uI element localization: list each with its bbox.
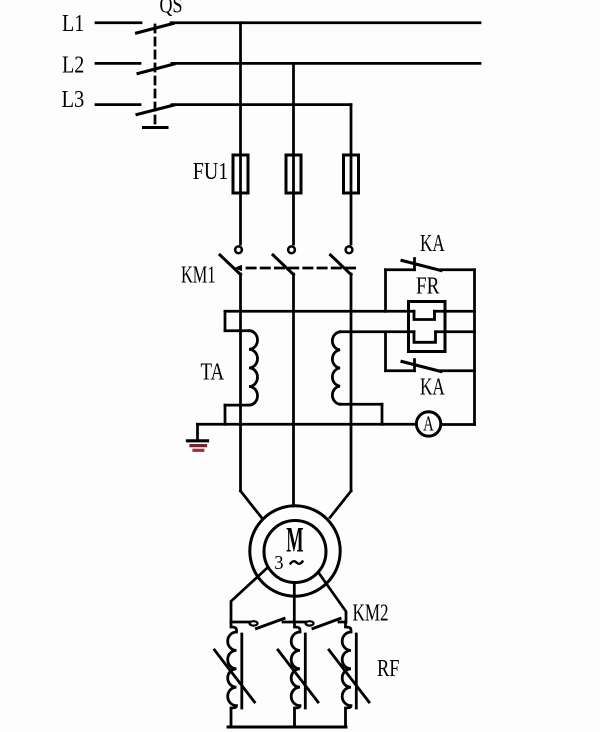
wire RF bottom bus bbox=[228, 726, 346, 729]
wire TA1 coil top lead bbox=[225, 329, 249, 332]
svg-text:KM1: KM1 bbox=[181, 262, 216, 288]
wire rotor lead A bbox=[231, 568, 267, 622]
svg-text:3: 3 bbox=[274, 553, 283, 574]
wire L1 left lead bbox=[96, 21, 141, 24]
contact KA upper left lead bbox=[386, 268, 415, 271]
contactor KM1 pole B blade bbox=[273, 255, 294, 275]
contactor KM1 pole A blade bbox=[220, 255, 241, 275]
contactor KM1 pole B terminal bbox=[288, 246, 295, 253]
wire TA1 secondary top step bbox=[224, 311, 227, 330]
wire L2 left lead bbox=[96, 62, 140, 65]
motor M inner circle bbox=[264, 521, 326, 583]
contact KA lower riser bbox=[413, 360, 416, 371]
svg-text:KA: KA bbox=[420, 231, 445, 257]
contactor KM1 linkage dashed line bbox=[234, 265, 242, 271]
wire motor lead A slant bbox=[241, 491, 262, 518]
fuse FU1 phase C bbox=[344, 155, 359, 193]
contactor KM1 pole C blade bbox=[331, 255, 352, 275]
contactor KM2 contact 2 blade bbox=[313, 619, 340, 629]
contactor KM2 contact 2 terminal bbox=[306, 621, 314, 625]
varistor RF phase B core bar bbox=[304, 634, 307, 708]
svg-text:FR: FR bbox=[416, 273, 440, 299]
wire KA left branch lower bbox=[384, 332, 387, 371]
wire KA left branch upper bbox=[384, 270, 387, 312]
switch QS pole 3 blade bbox=[137, 105, 174, 115]
contactor KM1 pole A terminal bbox=[235, 246, 242, 253]
wire TA secondary return to ammeter bbox=[198, 423, 417, 426]
svg-text:A: A bbox=[423, 411, 434, 435]
contact KA upper right lead bbox=[441, 268, 475, 271]
thermal relay FR lower heater notch bbox=[414, 332, 436, 343]
varistor RF phase A coil bbox=[228, 622, 237, 727]
wire phase C main drop bbox=[350, 274, 353, 491]
contactor KM2 bus segment 2 bbox=[283, 621, 306, 624]
varistor RF phase C coil bbox=[342, 622, 351, 727]
contactor KM2 contact 1 terminal bbox=[250, 621, 258, 625]
thermal relay FR heater box bbox=[409, 302, 446, 352]
wire phase B drop bbox=[292, 63, 295, 244]
wire L2 bus bbox=[172, 62, 480, 65]
current transformer TA coil phase C bbox=[332, 332, 340, 404]
wire rotor lead B bbox=[293, 583, 296, 622]
svg-text:KA: KA bbox=[420, 375, 445, 401]
wire TA2 bottom step bbox=[381, 404, 384, 424]
wire TA2 coil top lead to FR lower heater bbox=[340, 330, 414, 333]
fuse FU1 phase A bbox=[233, 155, 248, 193]
switch QS pole 1 blade bbox=[137, 24, 174, 34]
contact KA upper blade bbox=[402, 261, 441, 271]
wire TA1 bottom step bbox=[224, 405, 227, 424]
wire motor lead C slant bbox=[330, 491, 351, 518]
contactor KM1 pole C terminal bbox=[346, 246, 353, 253]
svg-text:KM2: KM2 bbox=[353, 600, 389, 626]
wire L1 bus bbox=[171, 21, 480, 24]
current transformer TA coil phase A bbox=[249, 331, 258, 405]
ground bar 2 bbox=[191, 444, 206, 447]
contactor KM2 bus segment 1 bbox=[231, 621, 250, 624]
svg-text:L1: L1 bbox=[62, 11, 84, 37]
contactor KM2 bus segment 3 bbox=[339, 621, 346, 624]
switch QS pole 2 blade bbox=[138, 64, 174, 74]
wire TA1 secondary to FR upper heater bbox=[225, 310, 414, 313]
wire ammeter right lead bbox=[441, 423, 475, 426]
contact KA lower left lead bbox=[386, 369, 415, 372]
ground riser bbox=[196, 424, 199, 439]
wire FR upper heater output bbox=[435, 310, 475, 313]
varistor RF phase C slash bbox=[329, 650, 369, 702]
contact KA lower right lead bbox=[441, 369, 475, 372]
ground bar 3 bbox=[194, 449, 203, 452]
switch QS linkage dashed line bbox=[154, 25, 157, 127]
contact KA upper riser bbox=[413, 259, 416, 270]
switch QS linkage end bar bbox=[144, 126, 168, 129]
svg-text:L2: L2 bbox=[62, 53, 84, 79]
fuse FU1 phase B bbox=[286, 155, 301, 193]
svg-text:FU1: FU1 bbox=[193, 159, 229, 185]
wire FR lower heater output bbox=[436, 330, 475, 333]
thermal relay FR upper heater notch bbox=[414, 311, 435, 319]
wire TA1 coil bottom lead bbox=[225, 404, 249, 407]
ammeter A bbox=[416, 412, 440, 436]
wire TA2 coil bottom lead bbox=[340, 403, 382, 406]
svg-text:RF: RF bbox=[377, 656, 400, 682]
svg-text:M: M bbox=[286, 519, 303, 559]
svg-text:L3: L3 bbox=[62, 87, 85, 113]
svg-text:QS: QS bbox=[160, 0, 183, 17]
wire phase B main drop bbox=[292, 274, 295, 506]
wire right branch vertical bbox=[473, 270, 476, 425]
wire phase A main drop bbox=[239, 274, 242, 491]
varistor RF phase A slash bbox=[215, 650, 255, 702]
varistor RF phase C core bar bbox=[355, 634, 358, 708]
varistor RF phase B coil bbox=[291, 622, 300, 727]
wire L3 bus bbox=[172, 103, 351, 106]
ground bar 1 bbox=[188, 439, 208, 442]
contactor KM2 contact 1 blade bbox=[257, 619, 285, 629]
svg-text:TA: TA bbox=[201, 360, 225, 386]
wire phase C drop bbox=[350, 105, 353, 244]
varistor RF phase A core bar bbox=[240, 634, 243, 708]
motor M outer circle bbox=[250, 506, 340, 596]
varistor RF phase B slash bbox=[278, 650, 318, 702]
wire L3 left lead bbox=[96, 103, 140, 106]
motor label tilde bbox=[291, 561, 303, 564]
wire rotor lead C bbox=[320, 574, 347, 622]
contact KA lower blade bbox=[402, 362, 441, 372]
wire phase A drop bbox=[239, 23, 242, 244]
